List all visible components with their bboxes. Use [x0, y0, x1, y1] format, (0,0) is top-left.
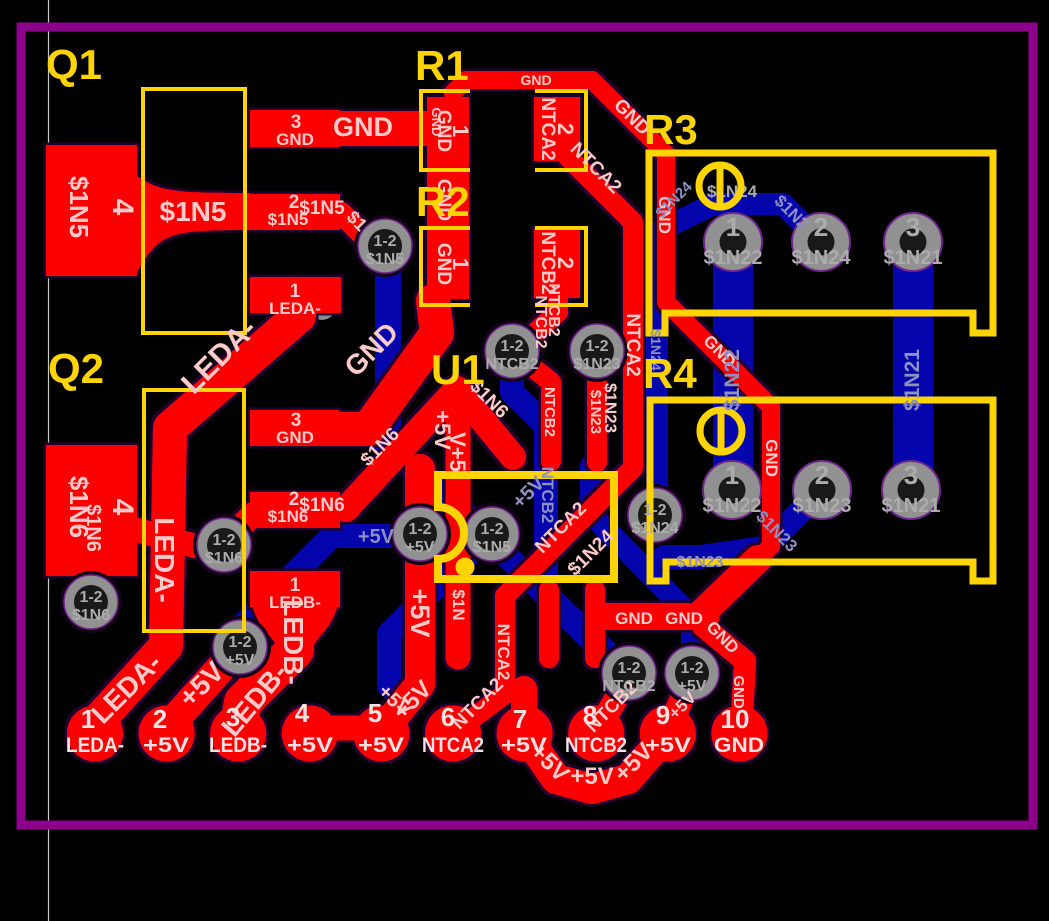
svg-text:R1: R1	[415, 42, 469, 89]
svg-text:$1N22: $1N22	[703, 495, 762, 517]
svg-text:$1N23: $1N23	[676, 554, 723, 571]
svg-text:+5V: +5V	[358, 734, 404, 757]
svg-text:3: 3	[906, 212, 920, 242]
pad Q2.4 $1N6	[46, 445, 137, 576]
pad R4.2	[793, 461, 851, 519]
svg-text:$1N22: $1N22	[721, 349, 744, 411]
bottom copper net labels (gray-blue)	[358, 178, 924, 571]
silkscreen yellow	[143, 89, 993, 631]
svg-text:1-2: 1-2	[228, 634, 251, 651]
svg-text:LEDA-: LEDA-	[149, 517, 180, 603]
pad R1.2 NTCA2	[534, 97, 580, 161]
svg-text:GND: GND	[520, 72, 551, 88]
svg-text:GND: GND	[714, 734, 764, 757]
multilayer pad labels (gray)	[72, 233, 707, 695]
svg-text:Q2: Q2	[48, 345, 104, 392]
pad Q2.1 LEDB-	[250, 571, 340, 607]
pad R2.2 NTCB2	[534, 229, 580, 298]
svg-text:$1N24: $1N24	[707, 182, 758, 201]
svg-text:$1N23: $1N23	[793, 495, 852, 517]
wire long diagonal to NTCB2 via	[415, 464, 629, 678]
svg-text:1-2: 1-2	[408, 521, 431, 538]
top copper group with clearance outline	[46, 80, 771, 789]
via NTCB2 top	[481, 320, 543, 382]
svg-text:U1: U1	[431, 346, 485, 393]
svg-text:$1N6: $1N6	[205, 550, 243, 567]
svg-text:1-2: 1-2	[480, 521, 503, 538]
via under Q1.1	[308, 292, 336, 320]
svg-text:$1N23: $1N23	[587, 390, 604, 434]
svg-text:$1N5: $1N5	[268, 210, 309, 229]
connector pad 8 NTCB2	[568, 706, 624, 762]
wire $1N24 R3.2 to via	[657, 204, 821, 508]
connector pad 10 GND	[711, 706, 767, 762]
svg-text:+5V: +5V	[405, 589, 435, 638]
svg-text:V+5: V+5	[445, 432, 470, 472]
multilayer pads (gray)	[60, 213, 942, 704]
svg-text:R3: R3	[644, 106, 698, 153]
resistor R1 outline	[421, 91, 586, 170]
via NTCB2 low	[598, 642, 660, 704]
svg-text:GND: GND	[615, 609, 653, 628]
svg-text:NTCB2: NTCB2	[485, 356, 538, 373]
svg-text:$1N: $1N	[449, 589, 468, 620]
via +5V lower right	[661, 642, 723, 704]
svg-text:2: 2	[553, 123, 578, 135]
svg-text:5: 5	[368, 698, 382, 728]
svg-text:+5V: +5V	[226, 652, 255, 669]
pad Q1.4 $1N5	[46, 145, 137, 276]
svg-text:2: 2	[815, 460, 829, 490]
svg-text:R2: R2	[416, 178, 470, 225]
svg-text:NTCB2: NTCB2	[602, 678, 655, 695]
svg-text:10: 10	[721, 704, 750, 734]
connector pad 3 LEDB-	[210, 706, 266, 762]
svg-text:$1N5: $1N5	[473, 539, 511, 556]
connector pad 2 +5V	[139, 706, 195, 762]
U1 pin1 dot	[456, 558, 475, 577]
wire to +5V via	[591, 466, 692, 668]
svg-text:7: 7	[513, 704, 527, 734]
svg-text:4: 4	[106, 199, 139, 216]
svg-text:$1N21: $1N21	[882, 495, 941, 517]
pad R3.3	[884, 213, 942, 271]
bottom copper (blue) traces	[241, 204, 913, 686]
wire GND Q1.3 to R1.1	[336, 111, 431, 146]
svg-text:$1N6: $1N6	[72, 607, 110, 624]
pad R4.3	[882, 461, 940, 519]
pad Q1.1 LEDA-	[250, 277, 341, 313]
svg-text:LEDA-: LEDA-	[66, 734, 124, 757]
svg-text:1: 1	[725, 460, 739, 490]
svg-text:$1N6: $1N6	[82, 504, 104, 552]
svg-text:4: 4	[295, 698, 310, 728]
svg-text:3: 3	[226, 702, 240, 732]
svg-text:NTCB2: NTCB2	[545, 283, 562, 336]
svg-text:+5V: +5V	[406, 539, 435, 556]
svg-text:+5V: +5V	[143, 734, 189, 757]
svg-text:GND: GND	[276, 130, 314, 149]
svg-text:9: 9	[656, 700, 670, 730]
pad R3.2	[792, 213, 850, 271]
svg-text:1-2: 1-2	[212, 532, 235, 549]
svg-text:NTCB2: NTCB2	[541, 387, 558, 437]
svg-text:1-2: 1-2	[680, 660, 703, 677]
via $1N24	[624, 484, 686, 546]
svg-text:GND: GND	[762, 439, 781, 477]
svg-text:$1N24: $1N24	[631, 520, 678, 537]
svg-text:+5V: +5V	[678, 678, 707, 695]
connector pin numbers and net names (bottom row)	[66, 698, 764, 757]
text labels: top copper nets (pink)	[64, 72, 781, 790]
connector pad 1 LEDA-	[67, 706, 123, 762]
svg-text:$1N5: $1N5	[160, 196, 227, 227]
pad Q1.3 GND	[250, 110, 340, 147]
svg-text:NTCB2: NTCB2	[565, 734, 627, 757]
wire below U1 down-left	[389, 553, 470, 686]
svg-text:1-2: 1-2	[373, 233, 396, 250]
svg-text:$1N21: $1N21	[901, 349, 924, 411]
R3/R4 pad numbers and nets	[703, 212, 943, 517]
svg-text:$1N23: $1N23	[573, 356, 620, 373]
pad R3.1	[704, 213, 762, 271]
connector pad 4 +5V	[282, 706, 338, 762]
svg-text:+5V: +5V	[358, 526, 395, 548]
wire NTCB2	[512, 358, 622, 667]
R3 pin1 mark	[699, 165, 741, 207]
connector pad 6 NTCA2	[425, 706, 481, 762]
svg-text:NTCA2: NTCA2	[494, 624, 513, 681]
svg-text:$1N24: $1N24	[792, 247, 852, 269]
svg-text:$1N21: $1N21	[884, 247, 943, 269]
via $1N23 top	[566, 320, 628, 382]
grid origin line	[48, 0, 50, 921]
svg-text:1-2: 1-2	[585, 338, 608, 355]
via $1N5	[354, 215, 416, 277]
pad U1 +5V	[389, 503, 451, 565]
svg-text:1: 1	[448, 125, 473, 137]
resistor R2 outline	[421, 228, 586, 305]
R4 pin1 mark	[700, 410, 742, 452]
svg-text:8: 8	[583, 700, 597, 730]
svg-text:2: 2	[553, 257, 578, 269]
svg-text:LEDA-: LEDA-	[269, 299, 321, 318]
connector R3 outline	[649, 153, 993, 333]
svg-text:+5V: +5V	[570, 763, 613, 790]
wire $1N5 diag to U1 pad	[388, 443, 478, 533]
svg-text:1-2: 1-2	[79, 589, 102, 606]
wire $1N23 R4.2	[664, 490, 822, 557]
svg-text:$1N6: $1N6	[268, 507, 309, 526]
svg-text:6: 6	[441, 702, 455, 732]
connector pad 5 +5V	[353, 706, 409, 762]
via +5V low	[209, 616, 271, 678]
svg-text:1: 1	[81, 704, 95, 734]
pad U1 $1N5	[461, 503, 523, 565]
svg-text:LEDB-: LEDB-	[209, 734, 267, 757]
svg-text:1-2: 1-2	[643, 502, 666, 519]
via $1N6 left	[60, 571, 122, 633]
svg-text:Q1: Q1	[46, 41, 102, 88]
svg-text:NTCB2: NTCB2	[538, 467, 557, 524]
wire $1N5 via down	[375, 252, 401, 446]
connector pad 7 +5V	[497, 706, 553, 762]
svg-text:R4: R4	[643, 350, 697, 397]
pad Q2.3 GND	[250, 410, 339, 446]
pad R1.1 R2.1 GND column	[427, 97, 469, 299]
via $1N6 mid	[193, 514, 255, 576]
node $1N5 Q1 inner pour	[137, 176, 250, 272]
svg-text:1-2: 1-2	[617, 660, 640, 677]
svg-text:1: 1	[448, 258, 473, 270]
svg-text:$1N5: $1N5	[64, 176, 94, 238]
svg-text:+5V: +5V	[501, 734, 547, 757]
svg-text:2: 2	[153, 704, 167, 734]
svg-text:NTCA2: NTCA2	[422, 734, 484, 757]
svg-text:$1N5: $1N5	[366, 251, 404, 268]
svg-text:+5V: +5V	[645, 734, 691, 757]
svg-text:1-2: 1-2	[500, 338, 523, 355]
op-amp U1 outline	[438, 475, 614, 579]
connector R4 outline	[650, 400, 993, 581]
svg-text:GND: GND	[276, 428, 314, 447]
svg-text:4: 4	[106, 499, 139, 516]
svg-text:GND: GND	[665, 609, 703, 628]
wire $1N21 R3.3-R4.3	[893, 242, 933, 490]
svg-text:NTCA2: NTCA2	[622, 313, 643, 376]
svg-text:GND: GND	[333, 112, 393, 142]
svg-text:3: 3	[904, 460, 918, 490]
reference designators	[46, 41, 698, 397]
svg-text:$1N22: $1N22	[704, 247, 763, 269]
connector pad 9 +5V	[640, 706, 696, 762]
svg-text:2: 2	[814, 212, 828, 242]
svg-text:+5V: +5V	[287, 734, 333, 757]
pad Q1.2 $1N5	[250, 194, 340, 230]
pad R4.1	[703, 461, 761, 519]
wire +5V via to U1	[241, 536, 424, 646]
transistor Q2 outline	[144, 390, 244, 631]
transistor Q1 outline	[143, 89, 245, 333]
svg-text:1: 1	[726, 212, 740, 242]
pad Q2.2 $1N6	[250, 492, 340, 528]
wire $1N22 R3.1-R4.1	[713, 242, 753, 490]
